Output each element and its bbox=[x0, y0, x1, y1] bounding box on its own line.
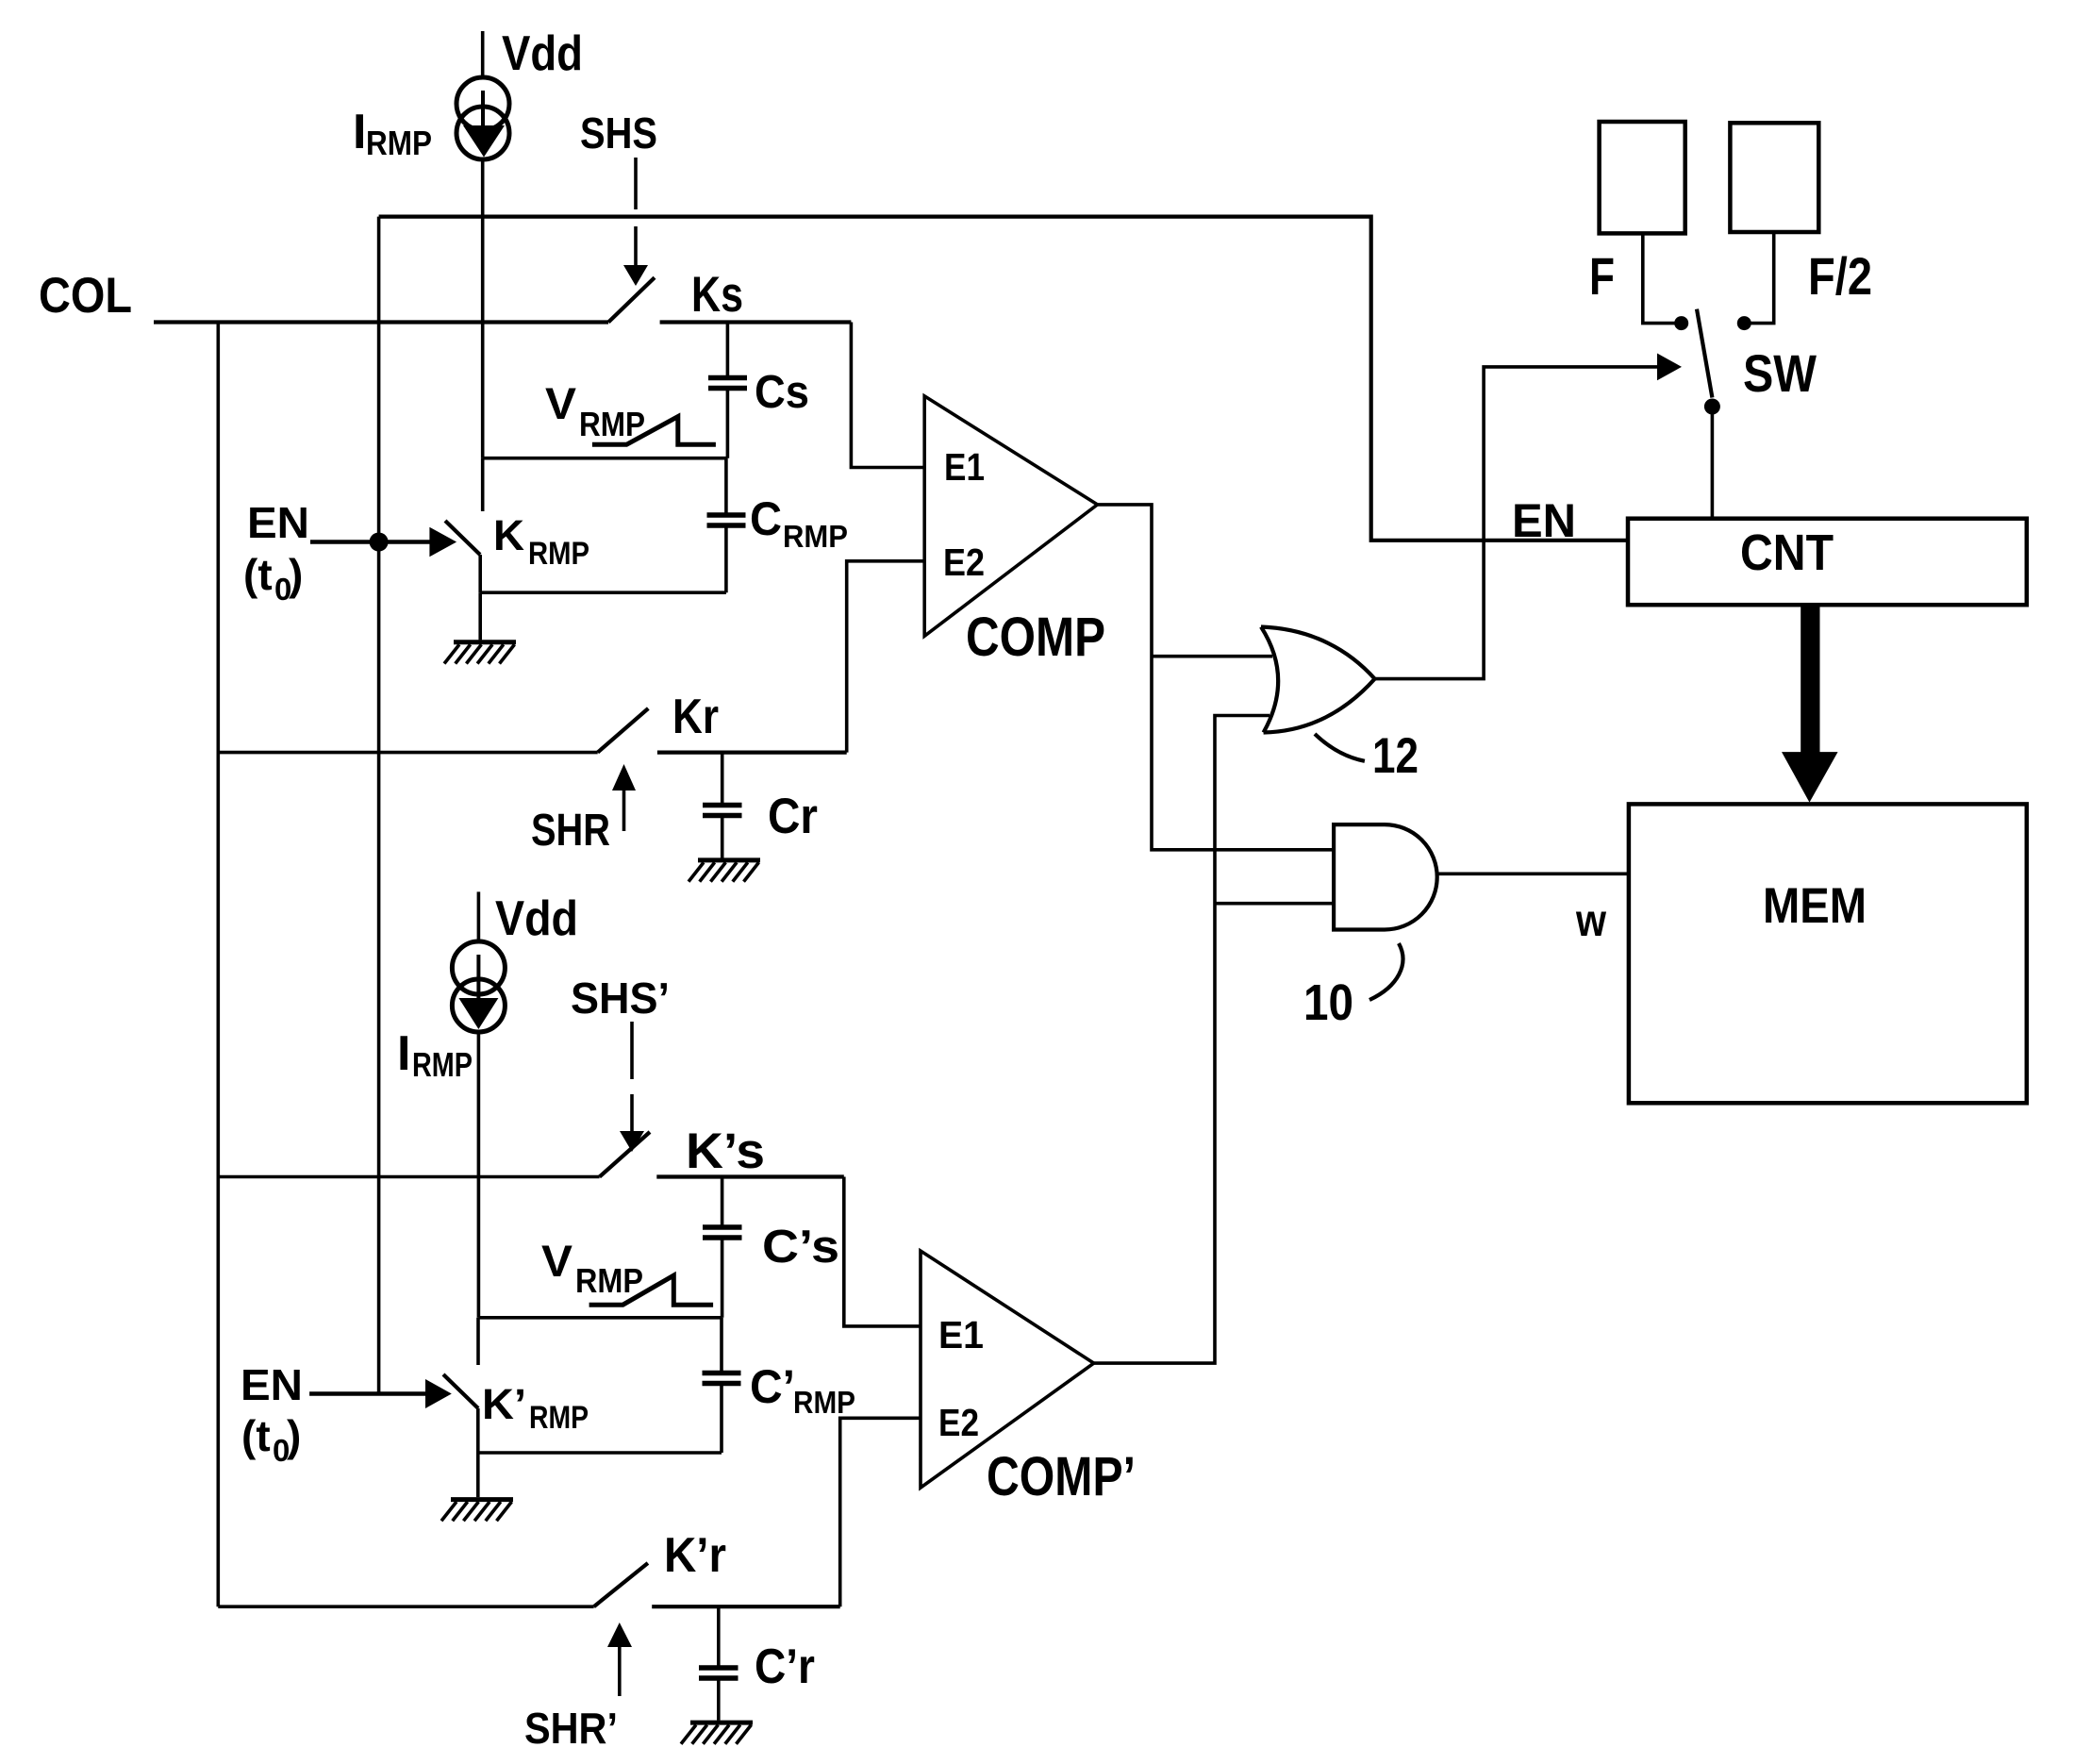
switch K'r bbox=[594, 1563, 840, 1606]
svg-text:RMP: RMP bbox=[412, 1045, 473, 1084]
switch KRMP bbox=[445, 458, 483, 593]
switch SW bbox=[1697, 309, 1720, 519]
svg-text:Ks: Ks bbox=[691, 267, 743, 323]
svg-text:K’s: K’s bbox=[686, 1123, 765, 1179]
wire V'RMP node bbox=[478, 1316, 722, 1320]
label EN (t0) lower bbox=[241, 1360, 303, 1468]
svg-text:Cs: Cs bbox=[755, 367, 809, 418]
ramp waveform symbol (upper) bbox=[592, 417, 716, 445]
wire F to switch contact bbox=[1643, 233, 1688, 330]
wire VRMP node bbox=[483, 457, 728, 460]
wire COMP output to OR and AND bbox=[1098, 505, 1336, 850]
box F/2 (clock source) bbox=[1730, 123, 1818, 232]
AND gate 10 bbox=[1334, 824, 1437, 929]
svg-text:EN: EN bbox=[247, 498, 309, 547]
wire COMP' output to OR and AND bbox=[1094, 716, 1336, 1364]
dashed control arrow SHS bbox=[623, 158, 648, 286]
box CNT (counter) bbox=[1628, 519, 2027, 606]
wire Vdd top lead bbox=[481, 31, 485, 79]
svg-text:RMP: RMP bbox=[575, 1261, 643, 1300]
wire Kr left segment bbox=[218, 751, 597, 755]
svg-text:(t: (t bbox=[243, 550, 273, 599]
switch Kr bbox=[598, 708, 847, 753]
svg-text:SHR: SHR bbox=[531, 806, 610, 856]
wire K's node down to E1' bbox=[844, 1177, 921, 1326]
svg-text:COMP’: COMP’ bbox=[987, 1446, 1136, 1507]
svg-text:E2: E2 bbox=[938, 1401, 979, 1444]
svg-text:12: 12 bbox=[1372, 728, 1419, 784]
svg-text:I: I bbox=[353, 105, 366, 159]
wire OR output to SW control arrow bbox=[1375, 354, 1682, 679]
SHR' control arrow bbox=[607, 1623, 632, 1696]
label KRMP bbox=[493, 511, 589, 572]
op-amp COMP (upper comparator) bbox=[924, 396, 1097, 636]
wire KRMP bottom to CRMP bottom bbox=[480, 591, 726, 594]
ramp waveform symbol (lower) bbox=[589, 1275, 714, 1305]
capacitor C'RMP bbox=[703, 1318, 741, 1453]
current source IRMP (upper) bbox=[456, 77, 509, 159]
ground under K'RMP bbox=[441, 1453, 513, 1521]
svg-text:RMP: RMP bbox=[528, 536, 589, 572]
svg-text:EN: EN bbox=[1512, 494, 1576, 547]
leader to 12 bbox=[1315, 734, 1365, 761]
svg-text:SW: SW bbox=[1743, 343, 1817, 403]
wire K'RMP bottom to C'RMP bottom bbox=[478, 1451, 722, 1455]
svg-text:RMP: RMP bbox=[366, 124, 432, 162]
leader to 10 bbox=[1369, 943, 1402, 1000]
svg-text:COL: COL bbox=[39, 268, 132, 324]
label VRMP (lower) bbox=[541, 1236, 643, 1300]
box MEM (memory) bbox=[1629, 804, 2027, 1103]
svg-text:CNT: CNT bbox=[1740, 524, 1834, 581]
svg-text:F: F bbox=[1589, 246, 1615, 306]
ground under C'r bbox=[681, 1722, 753, 1744]
switch Ks bbox=[608, 277, 851, 322]
thick arrow CNT to MEM bbox=[1782, 607, 1838, 803]
wire EN bus to CNT bbox=[379, 217, 1628, 541]
capacitor C'r bbox=[699, 1606, 738, 1721]
wire Vdd lead (lower) bbox=[477, 891, 481, 942]
wire AND output w to MEM bbox=[1437, 872, 1629, 875]
wire F/2 to switch contact bbox=[1737, 232, 1774, 330]
svg-text:SHS’: SHS’ bbox=[571, 974, 670, 1023]
svg-text:C’s: C’s bbox=[762, 1222, 839, 1273]
svg-text:Cr: Cr bbox=[768, 789, 818, 844]
svg-text:Vdd: Vdd bbox=[495, 891, 578, 946]
capacitor Cs bbox=[708, 323, 747, 458]
svg-text:): ) bbox=[287, 1411, 301, 1460]
wire COL line bbox=[154, 320, 608, 324]
label CRMP bbox=[750, 492, 848, 554]
capacitor CRMP bbox=[707, 458, 746, 593]
svg-text:I: I bbox=[397, 1026, 410, 1081]
svg-text:Kr: Kr bbox=[672, 690, 719, 744]
svg-text:F/2: F/2 bbox=[1808, 246, 1872, 306]
svg-text:(t: (t bbox=[241, 1411, 271, 1460]
ground under Cr bbox=[689, 860, 760, 882]
svg-text:K’: K’ bbox=[482, 1380, 526, 1428]
box F (clock source) bbox=[1600, 122, 1685, 233]
svg-text:E2: E2 bbox=[943, 541, 985, 584]
svg-text:MEM: MEM bbox=[1763, 878, 1867, 934]
svg-text:V: V bbox=[545, 378, 577, 428]
capacitor C's bbox=[703, 1177, 742, 1318]
svg-text:SHR’: SHR’ bbox=[524, 1704, 618, 1753]
wire current source to V'RMP node bbox=[477, 1032, 481, 1318]
wire Kr node up to E2 bbox=[847, 561, 925, 753]
switch K'RMP bbox=[443, 1318, 478, 1453]
label IRMP (lower) bbox=[397, 1026, 473, 1084]
svg-text:EN: EN bbox=[241, 1360, 303, 1409]
label C'RMP bbox=[750, 1360, 855, 1420]
label VRMP (upper) bbox=[545, 378, 645, 443]
svg-text:E1: E1 bbox=[938, 1313, 984, 1356]
svg-text:RMP: RMP bbox=[783, 519, 848, 554]
svg-text:RMP: RMP bbox=[529, 1400, 589, 1436]
SHR control arrow bbox=[612, 764, 636, 831]
svg-text:E1: E1 bbox=[944, 445, 985, 489]
wire current source to VRMP node bbox=[481, 159, 485, 458]
op-amp COMP' (lower comparator) bbox=[921, 1251, 1094, 1488]
dashed control arrow SHS' bbox=[620, 1022, 644, 1152]
switch K's bbox=[600, 1132, 844, 1177]
svg-text:K’r: K’r bbox=[664, 1528, 726, 1583]
current source IRMP (lower) bbox=[452, 941, 505, 1032]
svg-text:w: w bbox=[1575, 896, 1606, 946]
OR gate 12 bbox=[1261, 627, 1375, 733]
svg-text:10: 10 bbox=[1303, 974, 1353, 1031]
EN control arrow with junction dot bbox=[310, 527, 456, 557]
wire K'r node up to E2' bbox=[840, 1418, 921, 1606]
svg-text:COMP: COMP bbox=[966, 607, 1105, 668]
wire left branch vertical bbox=[217, 323, 221, 1607]
label EN (t0) upper bbox=[243, 498, 309, 607]
svg-text:C’: C’ bbox=[750, 1360, 795, 1413]
wire EN vertical bbox=[377, 217, 381, 1394]
wire Ks node down to E1 bbox=[851, 323, 924, 468]
wire K's left segment bbox=[218, 1175, 599, 1179]
label IRMP (upper) bbox=[353, 105, 432, 162]
svg-text:SHS: SHS bbox=[580, 108, 657, 158]
EN control arrow (lower) bbox=[309, 1379, 452, 1408]
svg-text:): ) bbox=[289, 550, 303, 599]
svg-text:K: K bbox=[493, 511, 525, 559]
svg-text:V: V bbox=[541, 1236, 573, 1286]
wire K'r left segment bbox=[218, 1605, 593, 1608]
ground under KRMP bbox=[444, 592, 516, 663]
label K'RMP bbox=[482, 1380, 589, 1436]
svg-text:RMP: RMP bbox=[793, 1385, 855, 1420]
svg-text:C: C bbox=[750, 492, 782, 545]
svg-text:C’r: C’r bbox=[755, 1639, 815, 1694]
capacitor Cr bbox=[703, 753, 742, 858]
svg-text:Vdd: Vdd bbox=[502, 26, 583, 81]
